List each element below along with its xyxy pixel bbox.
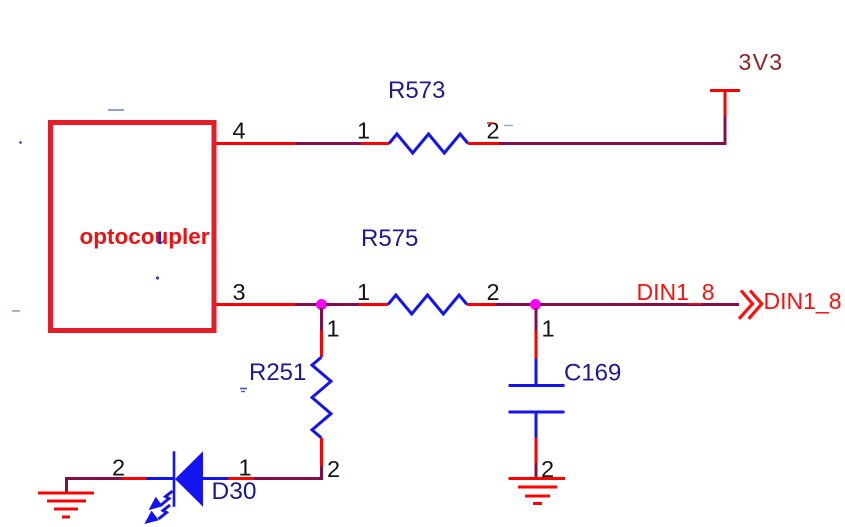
svg-text:3V3: 3V3	[739, 49, 784, 75]
svg-text:1: 1	[357, 279, 370, 305]
svg-text:2: 2	[541, 456, 554, 482]
svg-text:R573: R573	[388, 77, 445, 104]
svg-text:2: 2	[327, 456, 340, 482]
svg-text:optocoupler: optocoupler	[80, 224, 210, 249]
svg-text:4: 4	[233, 118, 246, 144]
svg-text:2: 2	[112, 455, 125, 481]
svg-text:D30: D30	[212, 478, 257, 505]
svg-text:1: 1	[357, 118, 370, 144]
svg-text:2: 2	[487, 279, 500, 305]
svg-text:1: 1	[239, 455, 252, 481]
svg-text:2: 2	[487, 118, 500, 144]
svg-text:1: 1	[542, 316, 555, 342]
svg-text:R251: R251	[249, 359, 306, 386]
svg-text:C169: C169	[564, 360, 621, 387]
svg-text:3: 3	[233, 279, 246, 305]
svg-text:R575: R575	[361, 225, 418, 252]
svg-text:DIN1_8: DIN1_8	[764, 288, 842, 314]
svg-text:DIN1_8: DIN1_8	[637, 279, 715, 305]
svg-text:1: 1	[327, 316, 340, 342]
